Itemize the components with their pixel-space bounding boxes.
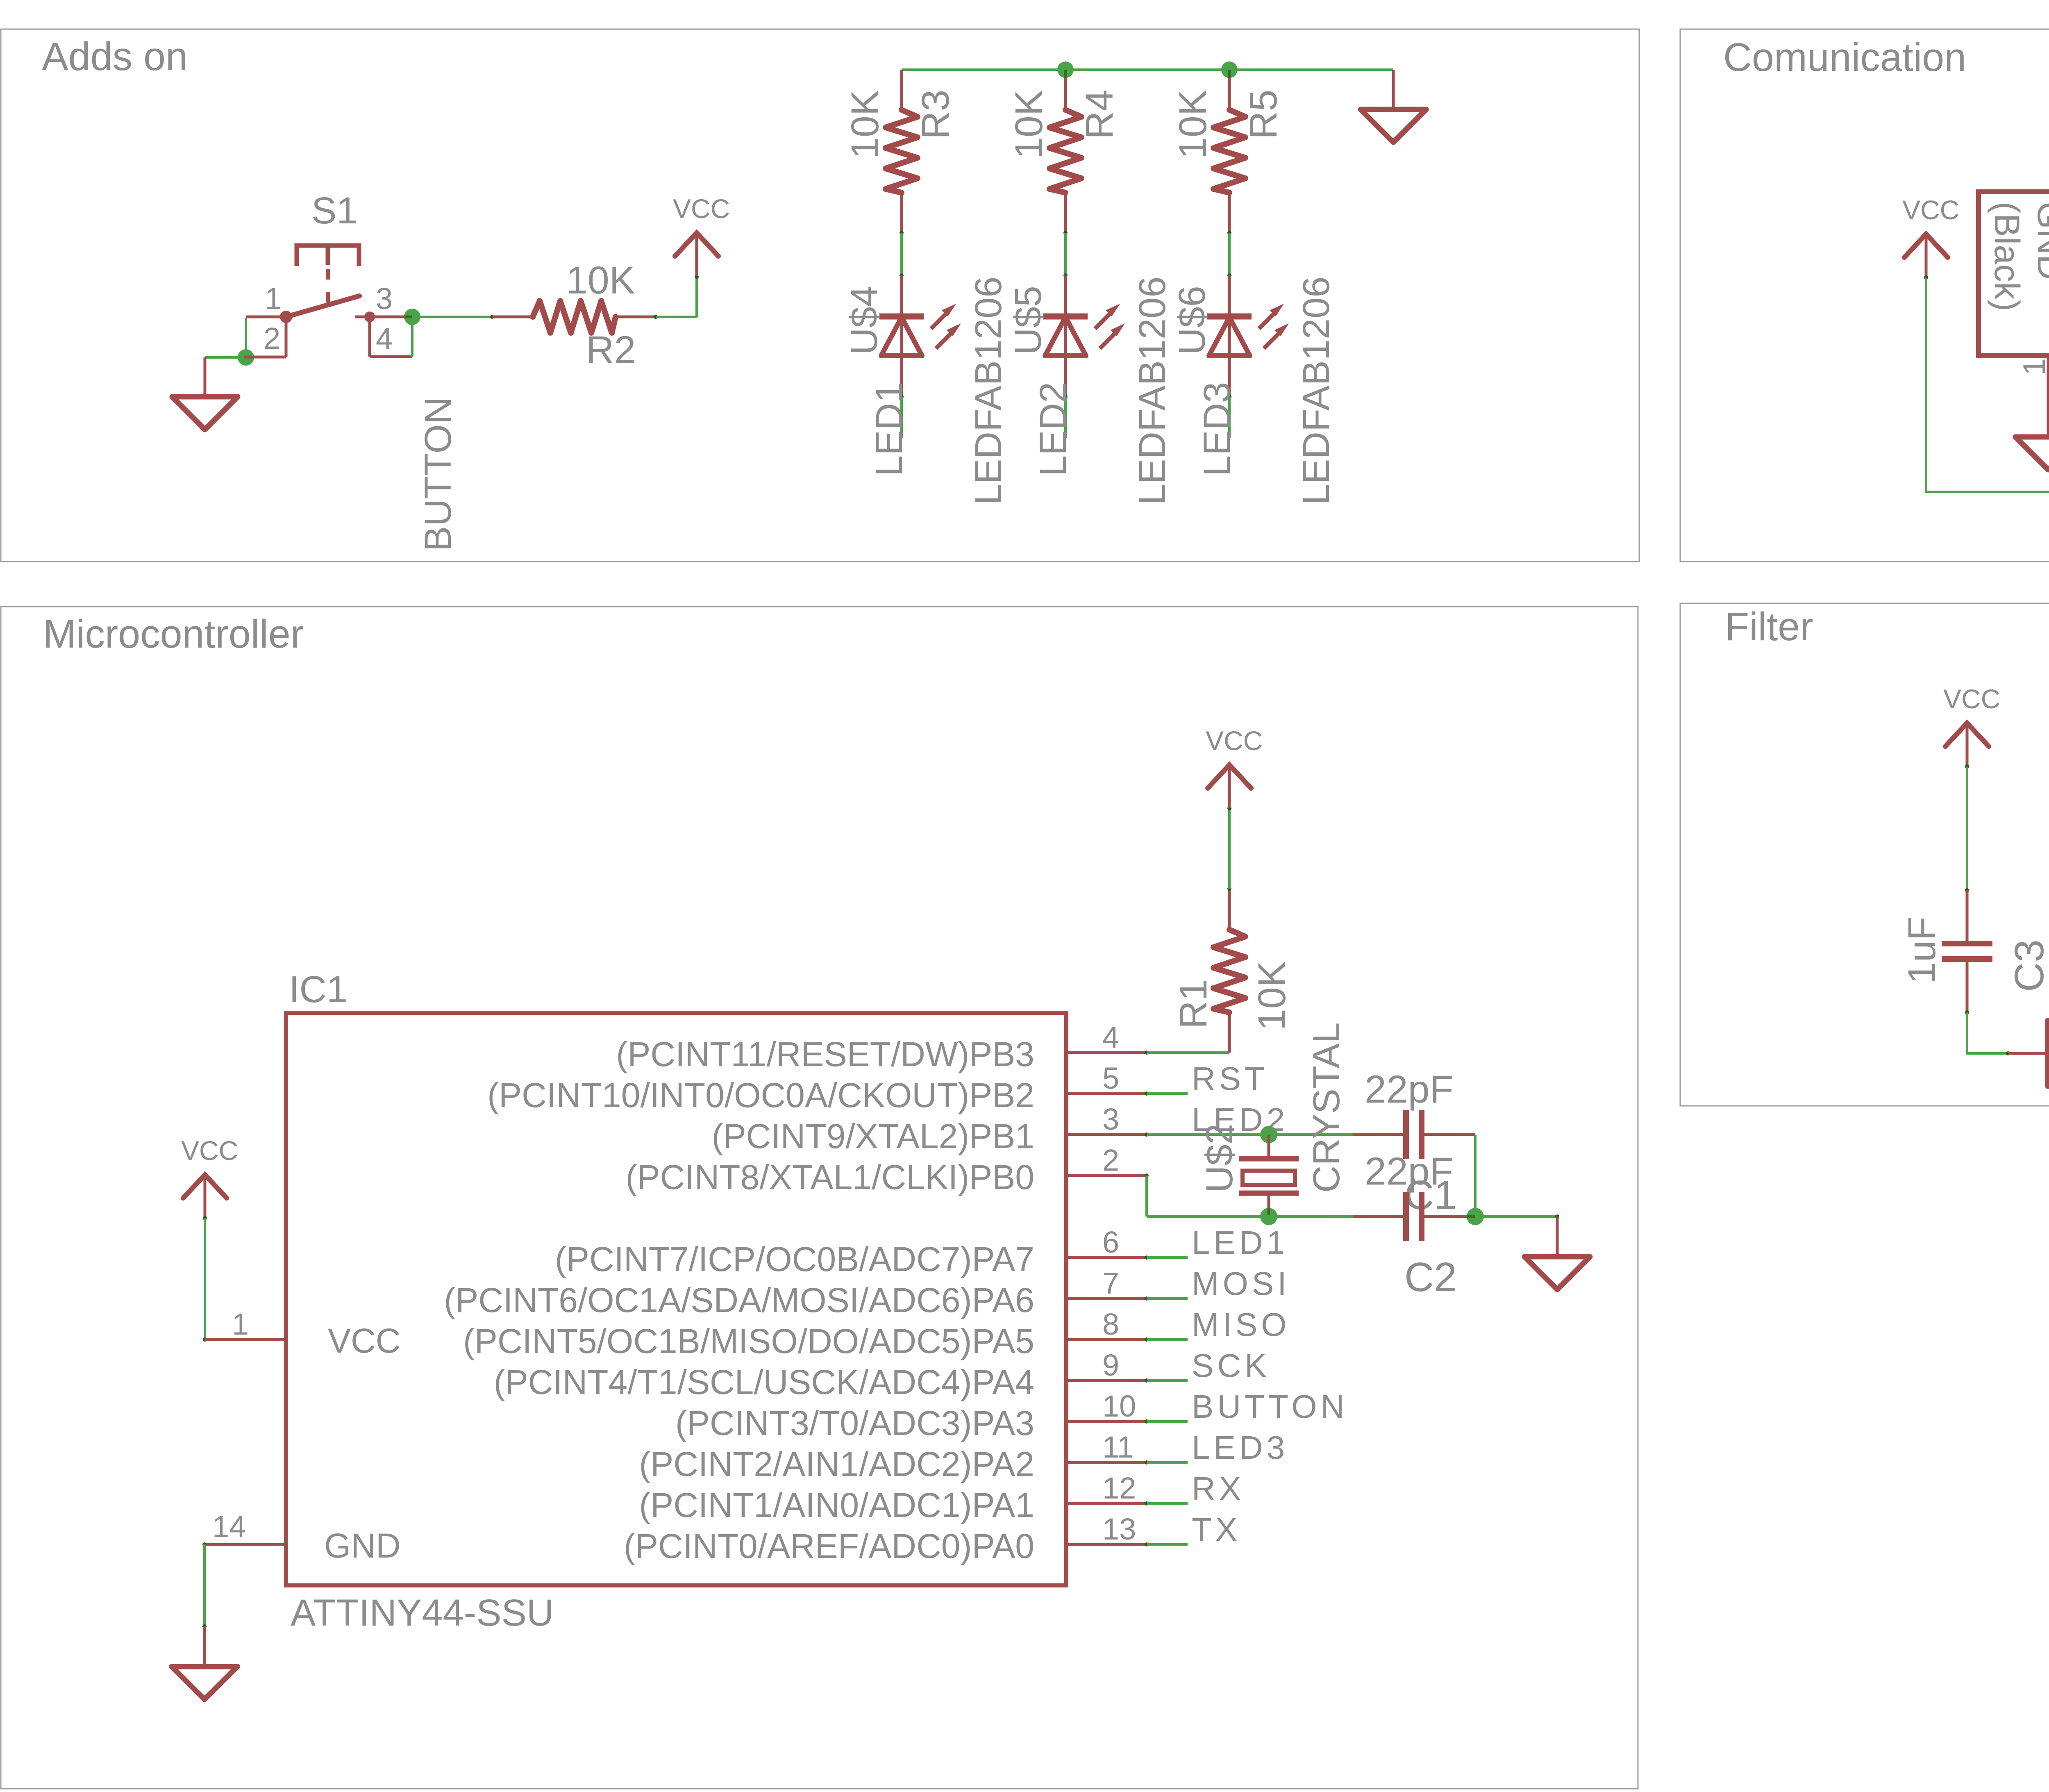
svg-text:S1: S1 <box>311 190 358 232</box>
svg-text:VCC: VCC <box>1206 725 1263 756</box>
svg-text:(PCINT6/OC1A/SDA/MOSI/ADC6)PA6: (PCINT6/OC1A/SDA/MOSI/ADC6)PA6 <box>444 1281 1034 1319</box>
wire net BUTTON stub <box>1145 1419 1149 1424</box>
wire BUTTON net <box>412 316 492 318</box>
svg-text:VCC: VCC <box>1943 684 2000 714</box>
wire pin4 to R1 <box>1145 1051 1149 1055</box>
svg-text:22pF: 22pF <box>1365 1068 1454 1111</box>
svg-text:Comunication: Comunication <box>1723 35 1966 80</box>
svg-text:VCC: VCC <box>328 1321 400 1360</box>
svg-text:IC1: IC1 <box>289 969 348 1010</box>
junction at switch pin2 <box>238 349 254 366</box>
svg-text:LEDFAB1206: LEDFAB1206 <box>1131 277 1173 505</box>
svg-text:VCC: VCC <box>181 1135 238 1166</box>
junction crystal bottom <box>1260 1208 1277 1225</box>
svg-text:10K: 10K <box>1171 90 1215 159</box>
svg-text:R5: R5 <box>1242 90 1285 139</box>
svg-text:6: 6 <box>1102 1225 1119 1259</box>
ground (adds-on right) <box>1392 70 1395 109</box>
frame Microcontroller <box>1 607 1638 1789</box>
svg-text:(PCINT2/AIN1/ADC2)PA2: (PCINT2/AIN1/ADC2)PA2 <box>639 1445 1034 1483</box>
wire net LED1 stub <box>1145 1255 1149 1260</box>
svg-text:Microcontroller: Microcontroller <box>43 612 304 656</box>
junction caps right <box>1467 1208 1484 1225</box>
svg-text:(PCINT0/AREF/ADC0)PA0: (PCINT0/AREF/ADC0)PA0 <box>624 1527 1034 1565</box>
svg-text:C2: C2 <box>1404 1254 1457 1300</box>
svg-text:GND: GND <box>2030 202 2049 280</box>
junction at switch pin3 <box>404 309 420 325</box>
IC1 pin 9 (PCINT4/T1/SCL/USCK/ADC4)PA4 <box>1066 1379 1147 1382</box>
LED light arrows <box>1095 311 1113 329</box>
VCC symbol <box>1945 723 1989 746</box>
IC1 pin 8 (PCINT5/OC1B/MISO/DO/ADC5)PA5 <box>1066 1338 1147 1341</box>
svg-text:(PCINT7/ICP/OC0B/ADC7)PA7: (PCINT7/ICP/OC0B/ADC7)PA7 <box>555 1240 1034 1278</box>
svg-text:R4: R4 <box>1078 90 1121 139</box>
svg-text:3: 3 <box>376 282 393 316</box>
svg-text:Adds on: Adds on <box>42 34 188 79</box>
resistor R2 <box>492 316 533 318</box>
wire net MISO stub <box>1145 1337 1149 1342</box>
VCC symbol <box>1208 765 1251 788</box>
svg-text:RX: RX <box>1192 1470 1245 1507</box>
ground under FTDI pin1 <box>2047 397 2049 437</box>
VCC symbol <box>183 1175 227 1198</box>
svg-text:U$2: U$2 <box>1199 1123 1240 1193</box>
svg-text:CRYSTAL: CRYSTAL <box>1306 1022 1347 1193</box>
IC1 pin 13 (PCINT0/AREF/ADC0)PA0 <box>1066 1543 1147 1546</box>
wire net SCK stub <box>1145 1378 1149 1383</box>
svg-text:BUTTON: BUTTON <box>1192 1388 1348 1425</box>
wire net LED3 <box>1228 356 1231 397</box>
svg-text:2: 2 <box>1102 1143 1119 1177</box>
svg-text:LED1: LED1 <box>1192 1224 1288 1261</box>
svg-text:1: 1 <box>2017 358 2049 375</box>
svg-text:C3: C3 <box>2006 939 2049 992</box>
svg-text:(PCINT3/T0/ADC3)PA3: (PCINT3/T0/ADC3)PA3 <box>675 1404 1034 1442</box>
wire pin3 row to crystal <box>1145 1133 1149 1137</box>
svg-text:1uF: 1uF <box>1900 916 1944 984</box>
svg-text:U$5: U$5 <box>1007 286 1049 355</box>
wire net LED2 stub <box>1145 1133 1149 1137</box>
svg-text:(PCINT9/XTAL2)PB1: (PCINT9/XTAL2)PB1 <box>712 1117 1034 1155</box>
IC1 pin 12 (PCINT1/AIN0/ADC1)PA1 <box>1066 1502 1147 1505</box>
svg-text:TX: TX <box>1192 1511 1241 1548</box>
svg-text:LED1: LED1 <box>868 382 910 476</box>
wire net LED2 <box>1064 356 1067 397</box>
frame Comunication <box>1680 29 2049 562</box>
LED light arrows <box>1259 311 1277 329</box>
junction bus R5 <box>1221 61 1238 78</box>
svg-text:7: 7 <box>1102 1266 1119 1300</box>
svg-text:U$4: U$4 <box>843 286 885 355</box>
switch S1 <box>246 316 286 318</box>
svg-text:(PCINT5/OC1B/MISO/DO/ADC5)PA5: (PCINT5/OC1B/MISO/DO/ADC5)PA5 <box>463 1322 1034 1360</box>
wire R1 to VCC <box>1227 887 1231 891</box>
junction bus R4 <box>1057 61 1074 78</box>
wire C3 to ground <box>1965 1010 1969 1014</box>
svg-text:R2: R2 <box>586 328 636 372</box>
svg-text:10K: 10K <box>1007 90 1051 159</box>
svg-text:U$6: U$6 <box>1171 286 1213 355</box>
wire pin14 to ground <box>202 1542 207 1546</box>
IC1 pin 14 GND <box>204 1543 286 1546</box>
IC IC1 ATTINY44 box <box>286 1013 1066 1585</box>
svg-text:BUTTON: BUTTON <box>417 397 459 551</box>
capacitor C1 <box>1353 1133 1406 1136</box>
wire net RX stub <box>1145 1501 1149 1505</box>
svg-text:(PCINT11/RESET/DW)PB3: (PCINT11/RESET/DW)PB3 <box>616 1035 1034 1073</box>
connector FTDI (serial header) <box>1979 192 2049 356</box>
wire C1 right down <box>1474 1135 1477 1217</box>
VCC symbol <box>675 233 718 256</box>
IC1 pin 1 VCC <box>204 1338 286 1341</box>
svg-text:(Black): (Black) <box>1987 202 2026 312</box>
svg-text:13: 13 <box>1102 1512 1136 1546</box>
frame Filter <box>1680 603 2049 1106</box>
svg-text:(PCINT10/INT0/OC0A/CKOUT)PB2: (PCINT10/INT0/OC0A/CKOUT)PB2 <box>487 1076 1034 1114</box>
svg-text:2: 2 <box>264 321 280 355</box>
svg-text:3: 3 <box>1102 1102 1119 1136</box>
ground (filter, right-pointing) <box>2008 1052 2048 1055</box>
crystal U$2 <box>1268 1135 1270 1159</box>
IC1 pin 11 (PCINT2/AIN1/ADC2)PA2 <box>1066 1461 1147 1464</box>
svg-text:(PCINT4/T1/SCL/USCK/ADC4)PA4: (PCINT4/T1/SCL/USCK/ADC4)PA4 <box>494 1363 1034 1401</box>
svg-text:LED3: LED3 <box>1192 1429 1288 1466</box>
svg-text:R1: R1 <box>1172 979 1215 1029</box>
svg-text:11: 11 <box>1102 1430 1134 1464</box>
svg-text:10K: 10K <box>1250 961 1294 1030</box>
wire net LED3 stub <box>1145 1460 1149 1465</box>
IC1 pin 7 (PCINT6/OC1A/SDA/MOSI/ADC6)PA6 <box>1066 1297 1147 1300</box>
svg-text:14: 14 <box>212 1510 246 1544</box>
IC1 pin 10 (PCINT3/T0/ADC3)PA3 <box>1066 1420 1147 1423</box>
wire VCC to pin1 <box>204 1218 206 1339</box>
ground GND (adds-on left) <box>204 357 207 397</box>
wire net TX stub <box>1145 1542 1149 1546</box>
capacitor C3 <box>1966 890 1969 944</box>
IC1 pin 4 (PCINT11/RESET/DW)PB3 <box>1066 1051 1147 1054</box>
wire junction up to pin1 <box>245 318 247 357</box>
IC1 pin 3 (PCINT9/XTAL2)PB1 <box>1066 1133 1147 1136</box>
capacitor C2 <box>1353 1215 1406 1218</box>
svg-text:4: 4 <box>1102 1020 1119 1054</box>
svg-text:ATTINY44-SSU: ATTINY44-SSU <box>291 1592 554 1634</box>
svg-text:10K: 10K <box>843 90 887 159</box>
IC1 pin 2 (PCINT8/XTAL1/CLKI)PB0 <box>1066 1174 1147 1177</box>
junction crystal top <box>1260 1126 1277 1143</box>
frame Adds on <box>1 29 1639 562</box>
ground (IC1) <box>203 1626 206 1667</box>
LED light arrows <box>931 311 949 329</box>
wire R2 to VCC <box>654 315 658 319</box>
VCC symbol <box>1904 234 1948 257</box>
svg-text:10K: 10K <box>566 259 635 302</box>
svg-text:10: 10 <box>1102 1389 1136 1423</box>
svg-text:SCK: SCK <box>1192 1347 1270 1384</box>
ground (crystal) <box>1556 1217 1559 1257</box>
svg-text:GND: GND <box>324 1526 401 1565</box>
wire GND net to switch <box>205 356 246 359</box>
svg-text:(PCINT8/XTAL1/CLKI)PB0: (PCINT8/XTAL1/CLKI)PB0 <box>626 1158 1034 1196</box>
wire VCC bus over LEDs <box>902 68 1393 71</box>
svg-text:12: 12 <box>1102 1471 1136 1505</box>
svg-text:MISO: MISO <box>1192 1306 1290 1343</box>
resistor R3 <box>900 70 903 110</box>
svg-text:8: 8 <box>1102 1307 1119 1341</box>
svg-text:LED2: LED2 <box>1032 382 1074 476</box>
svg-text:VCC: VCC <box>1902 195 1959 225</box>
svg-text:RST: RST <box>1192 1060 1268 1097</box>
svg-text:22pF: 22pF <box>1365 1150 1454 1193</box>
wire net LED1 <box>900 356 903 397</box>
resistor R5 <box>1228 70 1231 110</box>
resistor R4 <box>1064 70 1067 110</box>
LED U$6 <box>1228 275 1231 356</box>
LED U$5 <box>1064 275 1067 356</box>
svg-text:Filter: Filter <box>1725 604 1813 649</box>
svg-text:LEDFAB1206: LEDFAB1206 <box>968 277 1009 505</box>
svg-text:1: 1 <box>232 1307 249 1341</box>
wire R4 to U$5 <box>1063 231 1068 235</box>
wire net RST stub <box>1145 1092 1149 1096</box>
svg-text:4: 4 <box>376 322 393 356</box>
svg-text:VCC: VCC <box>673 193 730 224</box>
svg-text:LED3: LED3 <box>1196 382 1238 476</box>
svg-text:5: 5 <box>1102 1061 1119 1095</box>
wire caps to ground <box>1475 1215 1557 1218</box>
svg-text:LEDFAB1206: LEDFAB1206 <box>1295 277 1337 505</box>
IC1 pin 6 (PCINT7/ICP/OC0B/ADC7)PA7 <box>1066 1256 1147 1259</box>
wire VCC to FTDI pin3 <box>1926 277 2049 492</box>
LED U$4 <box>900 275 903 356</box>
svg-text:(PCINT1/AIN0/ADC1)PA1: (PCINT1/AIN0/ADC1)PA1 <box>639 1486 1034 1524</box>
svg-text:1: 1 <box>265 282 282 316</box>
wire R5 to U$6 <box>1227 231 1231 235</box>
svg-text:R3: R3 <box>914 90 957 139</box>
FTDI pin 1 <box>2047 356 2049 397</box>
svg-text:9: 9 <box>1102 1348 1119 1382</box>
wire pin2 to lower row <box>1145 1173 1149 1178</box>
resistor R1 <box>1228 1012 1231 1053</box>
wire VCC to C3 <box>1966 766 1968 890</box>
svg-text:MOSI: MOSI <box>1192 1265 1290 1302</box>
wire R3 to U$4 <box>900 231 904 235</box>
wire net MOSI stub <box>1145 1296 1149 1301</box>
IC1 pin 5 (PCINT10/INT0/OC0A/CKOUT)PB2 <box>1066 1092 1147 1095</box>
